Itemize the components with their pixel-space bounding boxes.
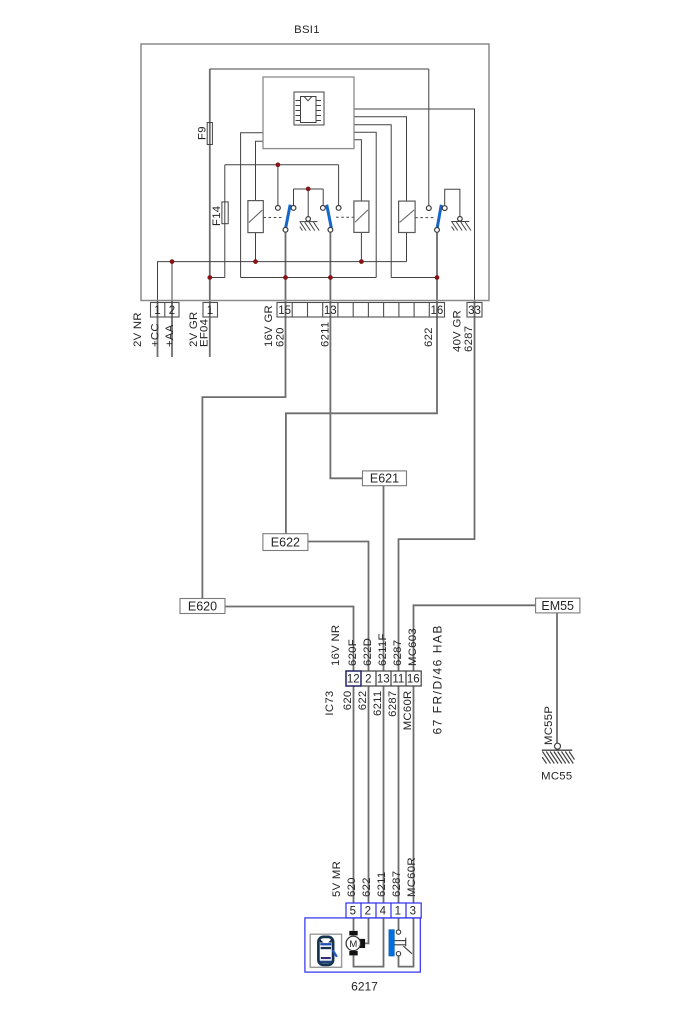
svg-text:BSI1: BSI1 [294, 24, 320, 36]
svg-text:2V NR: 2V NR [132, 312, 144, 347]
svg-text:40V GR: 40V GR [452, 310, 464, 352]
svg-text:620: 620 [275, 327, 287, 347]
svg-text:622: 622 [357, 691, 369, 711]
svg-text:6211: 6211 [376, 872, 388, 898]
svg-text:6287: 6287 [392, 640, 404, 666]
svg-text:MC603: MC603 [407, 628, 419, 666]
svg-text:EF04: EF04 [199, 319, 211, 347]
svg-text:13: 13 [377, 673, 390, 685]
svg-text:620: 620 [346, 877, 358, 897]
svg-text:5V MR: 5V MR [331, 861, 343, 897]
svg-text:E620: E620 [188, 599, 217, 613]
svg-text:+AA: +AA [164, 324, 176, 347]
svg-text:E621: E621 [370, 472, 399, 486]
svg-text:622D: 622D [362, 638, 374, 666]
svg-text:67 FR/D/46 HAB: 67 FR/D/46 HAB [431, 624, 445, 734]
svg-text:11: 11 [392, 673, 404, 685]
svg-text:6287: 6287 [387, 691, 399, 717]
svg-text:6211F: 6211F [377, 633, 389, 666]
svg-text:622: 622 [423, 327, 435, 347]
svg-text:33: 33 [468, 305, 481, 317]
svg-text:M: M [349, 939, 357, 950]
svg-text:6287: 6287 [463, 326, 475, 352]
svg-text:5: 5 [350, 905, 356, 917]
svg-text:622: 622 [361, 877, 373, 897]
svg-text:F9: F9 [197, 126, 209, 140]
svg-text:6287: 6287 [391, 871, 403, 897]
svg-text:620F: 620F [347, 639, 359, 666]
svg-text:1: 1 [154, 305, 160, 317]
svg-text:15: 15 [278, 305, 291, 317]
svg-text:2: 2 [169, 305, 175, 317]
svg-text:16V GR: 16V GR [263, 305, 275, 347]
svg-text:16: 16 [407, 673, 420, 685]
svg-text:1: 1 [395, 905, 401, 917]
svg-text:MC55: MC55 [541, 771, 572, 783]
svg-text:3: 3 [410, 905, 416, 917]
svg-text:E622: E622 [271, 536, 300, 550]
svg-text:MC55P: MC55P [543, 706, 555, 745]
svg-text:13: 13 [324, 305, 337, 317]
svg-text:MC60R: MC60R [402, 691, 414, 731]
svg-text:IC73: IC73 [324, 691, 336, 716]
svg-text:2: 2 [365, 673, 371, 685]
svg-text:1: 1 [207, 305, 213, 317]
svg-text:620: 620 [342, 691, 354, 711]
svg-text:MC60R: MC60R [406, 857, 418, 897]
svg-text:2: 2 [365, 905, 371, 917]
svg-text:6211: 6211 [320, 322, 332, 348]
svg-text:EM55: EM55 [541, 599, 574, 613]
svg-text:16V NR: 16V NR [330, 625, 342, 666]
svg-text:6211: 6211 [372, 691, 384, 717]
svg-text:4: 4 [380, 905, 387, 917]
svg-text:F14: F14 [211, 206, 223, 226]
svg-text:12: 12 [347, 673, 360, 685]
svg-text:+CC: +CC [150, 323, 162, 347]
svg-text:16: 16 [431, 305, 444, 317]
svg-text:6217: 6217 [351, 980, 378, 994]
